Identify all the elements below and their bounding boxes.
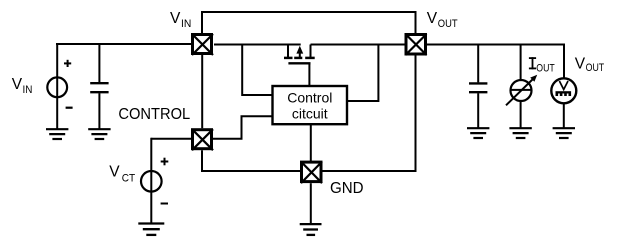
wire control pin bottom to GND pin: [202, 150, 300, 171]
svg-text:CONTROL: CONTROL: [118, 106, 190, 123]
wire mosfet source to VOUT pin: [311, 44, 405, 46]
wire control pin to control circuit lower left: [213, 116, 273, 139]
node V_IN label (pin): [170, 10, 191, 30]
label V_OUT (meter): [575, 55, 605, 74]
svg-text:CT: CT: [122, 172, 136, 184]
capacitor C2 output: [469, 45, 487, 129]
plus sign V1: [64, 60, 71, 67]
wire tap to control circuit upper left: [242, 44, 272, 96]
wire control pin left: [151, 138, 191, 140]
ground G7 (under M2): [553, 128, 575, 138]
wire VIN pin bottom to control pin top: [201, 55, 203, 128]
voltage source V1 VIN: [47, 43, 67, 129]
pin X1 VIN: [192, 34, 213, 55]
label CONTROL: [118, 106, 190, 123]
control circuit box U1: [273, 86, 348, 124]
svg-text:OUT: OUT: [586, 62, 605, 74]
label I_OUT: [529, 57, 555, 74]
minus sign V1: [66, 107, 73, 109]
ground G5 (under C2): [467, 128, 489, 138]
ground G3 (under V2): [138, 224, 164, 235]
transistor M1 pass FET: [284, 44, 315, 86]
label V_CT: [109, 163, 135, 184]
svg-text:V: V: [12, 76, 23, 93]
plus sign V2: [161, 158, 169, 166]
label V_IN (source): [12, 76, 33, 96]
svg-text:GND: GND: [330, 180, 364, 197]
wire input rail: [56, 43, 191, 45]
wire control circuit right to source rail: [347, 44, 378, 102]
wire VIN pin to mosfet drain: [214, 44, 301, 46]
ground G4 (under GND pin): [300, 183, 322, 235]
svg-text:V: V: [427, 10, 438, 27]
svg-text:IN: IN: [23, 84, 33, 96]
svg-text:citcuit: citcuit: [292, 105, 328, 121]
voltmeter M2 VOUT: [551, 78, 576, 128]
node V_OUT label (pin): [427, 10, 458, 30]
label GND: [330, 180, 364, 197]
wire output rail: [427, 45, 565, 79]
ground G6 (under I1): [509, 128, 531, 138]
wire control circuit bottom to GND pin: [310, 124, 312, 161]
svg-text:V: V: [575, 55, 586, 72]
svg-text:OUT: OUT: [438, 18, 458, 30]
svg-text:OUT: OUT: [536, 62, 555, 74]
voltage source V2 VCT: [141, 138, 162, 224]
svg-text:V: V: [170, 10, 181, 27]
label Control citcuit: [287, 89, 332, 121]
current load meter I1: [506, 45, 537, 129]
wire package top rail: [202, 12, 416, 34]
svg-text:Control: Control: [287, 89, 332, 105]
wire VOUT pin bottom to GND pin right: [323, 56, 416, 172]
svg-text:V: V: [109, 163, 120, 180]
svg-text:IN: IN: [181, 18, 191, 30]
ground G1 (under V1): [46, 129, 68, 139]
pin X2 CONTROL: [192, 129, 213, 150]
minus sign V2: [161, 203, 168, 205]
pin X3 GND: [301, 162, 322, 184]
pin X4 VOUT: [406, 34, 427, 55]
capacitor C1 input: [90, 43, 108, 129]
ground G2 (under C1): [88, 129, 110, 139]
